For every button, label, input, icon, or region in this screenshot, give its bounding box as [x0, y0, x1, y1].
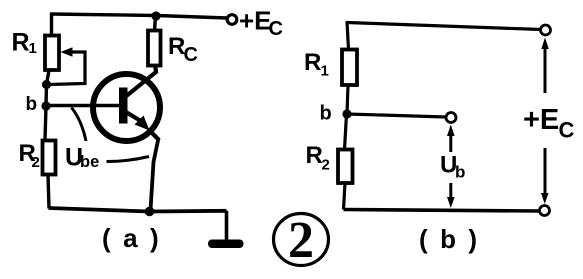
label +Ec (a)	[239, 6, 283, 41]
wire: R1 to node b (a)	[46, 70, 49, 106]
arrow Ub lower (to bottom rail)	[447, 183, 455, 208]
terminal bottom right (b)	[540, 206, 550, 216]
wire: top rail of circuit (b)	[347, 23, 541, 30]
wire: left rail upper segment (a)	[50, 13, 53, 36]
svg-text:be: be	[80, 153, 99, 171]
wire: R1 to node b (b)	[347, 85, 348, 114]
label (b)	[419, 224, 480, 254]
node: junction of RC with top rail	[151, 11, 160, 20]
resistor RC	[148, 31, 161, 66]
wire: drop from bottom rail to ground	[225, 211, 229, 241]
svg-text:2: 2	[322, 157, 330, 174]
svg-text:+E: +E	[239, 6, 272, 36]
label Ube	[65, 144, 99, 172]
arrow Ub upper (pointing up at terminal)	[447, 125, 455, 153]
svg-text:1: 1	[29, 40, 37, 57]
wire: R2 to bottom rail (a)	[48, 175, 49, 209]
transistor Q1	[93, 64, 160, 141]
arrow +Ec lower (pointing down at bottom terminal)	[541, 148, 549, 204]
svg-text:C: C	[269, 18, 283, 40]
leader curve from Ube label to emitter wire	[107, 157, 150, 162]
node b (b)	[342, 109, 351, 118]
resistor R2 (a)	[43, 141, 56, 175]
terminal top right (b)	[541, 25, 551, 35]
svg-text:C: C	[559, 118, 575, 143]
svg-text:2: 2	[288, 212, 314, 269]
wire: node b down to R2 (b)	[345, 114, 347, 150]
wiper arrow of R1 (rheostat connection)	[49, 47, 85, 84]
wire: node b down to R2 (a)	[45, 106, 46, 140]
svg-text:1: 1	[321, 63, 329, 80]
node: wiper junction below R1	[42, 80, 51, 89]
svg-text:+E: +E	[523, 104, 559, 136]
svg-text:( b ): ( b )	[419, 224, 480, 254]
wire: node b to Ub terminal	[347, 114, 446, 117]
resistor R1 (b)	[342, 50, 357, 86]
figure number 2 in circle	[274, 212, 329, 269]
svg-text:R: R	[12, 29, 30, 57]
wire: top rail of circuit (a)	[50, 14, 227, 18]
wire: emitter down to bottom rail	[151, 138, 159, 210]
label +Ec (b)	[523, 104, 575, 143]
resistor R2 (b)	[338, 150, 353, 184]
svg-text:b: b	[26, 94, 38, 115]
svg-text:R: R	[304, 49, 321, 76]
arrow +Ec upper (pointing up at top terminal)	[541, 38, 549, 94]
leader curve from base wire to Ube label	[72, 108, 87, 142]
terminal +Ec of circuit (a)	[227, 15, 237, 25]
resistor R1 (a)	[45, 36, 59, 71]
label RC	[168, 33, 198, 66]
wire: R2 to bottom rail (b)	[344, 183, 346, 210]
terminal Ub	[446, 113, 456, 123]
wire: bottom rail of circuit (a)	[49, 208, 227, 212]
node: emitter junction on bottom rail	[145, 207, 155, 217]
label R2 (a)	[19, 140, 40, 171]
label (a)	[102, 223, 161, 253]
label R2 (b)	[306, 142, 330, 174]
ground	[208, 240, 244, 249]
svg-text:R: R	[306, 142, 323, 169]
label R1 (a)	[12, 29, 37, 58]
label b (b)	[320, 103, 332, 125]
svg-text:C: C	[184, 44, 198, 66]
svg-text:b: b	[455, 163, 465, 182]
svg-text:2: 2	[32, 154, 40, 171]
wire: bottom rail of circuit (b)	[344, 210, 540, 212]
label Ub	[440, 152, 465, 182]
node b (a)	[41, 101, 50, 110]
label b (a)	[26, 94, 38, 115]
svg-text:b: b	[320, 103, 332, 125]
wire: RC to top rail	[155, 15, 156, 31]
wire: base wire from node b to transistor	[46, 104, 121, 108]
wire: left rail upper segment (b)	[347, 21, 349, 50]
svg-text:( a ): ( a )	[102, 223, 161, 253]
label R1 (b)	[304, 49, 329, 80]
